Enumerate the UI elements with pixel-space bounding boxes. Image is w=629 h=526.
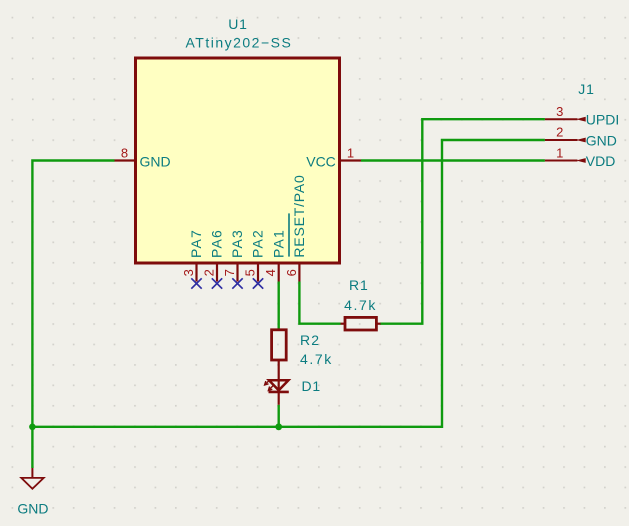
svg-text:3: 3: [556, 104, 563, 119]
svg-text:3: 3: [181, 269, 196, 276]
no-connect X on PA3: [232, 278, 242, 288]
pin 3 PA7: [195, 262, 197, 282]
svg-text:D1: D1: [302, 378, 322, 394]
no-connect X on PA6: [212, 278, 222, 288]
wire RESET/PA0 pin6 to R1 left: [299, 282, 340, 324]
J1 pin 1 VDD: [545, 160, 578, 162]
wire D1 bottom to rail: [278, 405, 280, 427]
svg-text:1: 1: [556, 145, 563, 160]
wire PA1 to R2 top: [278, 282, 280, 330]
RESET overbar: [288, 213, 290, 256]
IC U1 ATtiny202-SS body: [136, 58, 340, 263]
pin 2 PA6: [216, 262, 218, 282]
pin 8 GND left: [115, 159, 138, 161]
junction at D1 bottom: [275, 423, 282, 430]
svg-text:2: 2: [202, 269, 217, 276]
pin 7 PA3: [236, 262, 238, 282]
svg-text:1: 1: [347, 146, 354, 161]
diode D1 emission arrow 1: [265, 380, 274, 391]
resistor R2: [272, 330, 287, 360]
no-connect X on PA7: [191, 278, 201, 288]
resistor R1: [341, 323, 347, 325]
svg-text:U1: U1: [228, 16, 248, 32]
svg-text:GND: GND: [586, 132, 617, 148]
svg-text:8: 8: [121, 146, 128, 161]
diode D1 cathode bar: [269, 391, 289, 394]
ground symbol: [31, 468, 33, 478]
wire VCC: pin1 to J1 pin1 VDD: [361, 159, 545, 161]
svg-text:4.7k: 4.7k: [300, 351, 333, 367]
no-connect X on PA2: [253, 278, 263, 288]
pin 1 VCC right: [338, 159, 361, 161]
svg-text:PA7: PA7: [188, 229, 204, 258]
svg-text:VDD: VDD: [586, 153, 616, 169]
svg-text:GND: GND: [140, 154, 171, 170]
svg-text:UPDI: UPDI: [586, 112, 619, 128]
svg-text:PA6: PA6: [209, 229, 225, 258]
svg-text:PA3: PA3: [229, 229, 245, 258]
svg-text:PA2: PA2: [250, 229, 266, 258]
wire GND net: pin8 left, down to bottom rail, to GND symbol: [32, 161, 114, 469]
svg-text:4: 4: [263, 269, 278, 276]
svg-text:VCC: VCC: [306, 154, 336, 170]
svg-text:2: 2: [556, 125, 563, 140]
J1 pin 2 GND: [545, 139, 578, 141]
pin 4 PA1: [278, 262, 280, 282]
svg-text:J1: J1: [578, 81, 594, 97]
junction at GND drop: [29, 424, 36, 431]
diode D1 emission arrow 2: [269, 385, 274, 390]
svg-text:R2: R2: [300, 332, 320, 348]
diode D1 pin through: [278, 360, 280, 405]
svg-text:PA1: PA1: [270, 229, 286, 258]
svg-text:R1: R1: [349, 277, 369, 293]
svg-text:ATtiny202−SS: ATtiny202−SS: [185, 34, 292, 50]
pin 5 PA2: [257, 262, 259, 282]
svg-text:GND: GND: [17, 501, 48, 517]
diode D1 triangle: [269, 380, 288, 390]
wire bottom rail up to J1 pin2 GND: [32, 140, 545, 427]
wire UPDI: J1 pin3 down to R1 right: [380, 119, 545, 324]
svg-text:5: 5: [243, 269, 258, 276]
svg-text:4.7k: 4.7k: [344, 297, 377, 313]
J1 pin 3 UPDI: [545, 118, 578, 120]
svg-text:7: 7: [222, 269, 237, 276]
pin 6 RESET/PA0: [298, 262, 300, 282]
svg-text:6: 6: [284, 269, 299, 276]
svg-text:RESET/PA0: RESET/PA0: [291, 174, 307, 257]
